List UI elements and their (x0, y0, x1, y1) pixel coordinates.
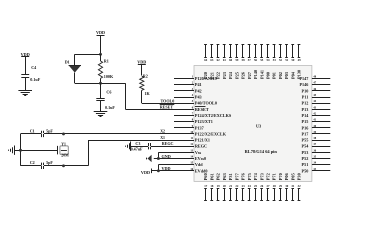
svg-text:VDD: VDD (137, 59, 146, 64)
svg-text:P54: P54 (302, 144, 310, 149)
svg-text:28: 28 (273, 184, 277, 188)
svg-text:P06: P06 (284, 172, 289, 180)
svg-text:TOOL0: TOOL0 (161, 98, 175, 103)
svg-text:20M: 20M (61, 153, 69, 157)
svg-text:U3: U3 (256, 123, 261, 128)
svg-text:GND: GND (162, 154, 171, 159)
svg-text:P11: P11 (302, 95, 309, 100)
svg-text:P51: P51 (302, 162, 309, 167)
svg-text:X1: X1 (160, 136, 165, 140)
svg-text:50: 50 (291, 58, 295, 62)
svg-text:P17: P17 (302, 131, 309, 136)
svg-text:19: 19 (217, 184, 221, 188)
svg-text:P75: P75 (247, 173, 252, 180)
svg-text:P22: P22 (216, 72, 221, 79)
svg-text:P27: P27 (247, 71, 252, 79)
svg-text:P02: P02 (278, 72, 283, 79)
svg-text:P124/XT2/EXCLKS: P124/XT2/EXCLKS (195, 113, 232, 118)
svg-text:P76: P76 (241, 172, 246, 180)
svg-text:53: 53 (273, 58, 277, 62)
svg-text:P31: P31 (228, 173, 233, 180)
svg-text:55: 55 (260, 58, 264, 62)
svg-text:EVss0: EVss0 (195, 156, 206, 161)
svg-text:5pF: 5pF (46, 128, 53, 133)
svg-text:58: 58 (242, 58, 246, 62)
svg-text:54: 54 (267, 58, 271, 62)
svg-text:31: 31 (291, 184, 295, 188)
svg-text:30: 30 (285, 184, 289, 188)
svg-text:P04: P04 (290, 71, 295, 79)
svg-text:P55: P55 (302, 138, 309, 143)
svg-text:P72: P72 (266, 173, 271, 180)
svg-text:P130: P130 (297, 70, 302, 79)
svg-text:P71: P71 (272, 173, 277, 180)
svg-text:P70: P70 (278, 173, 283, 180)
svg-text:Vss: Vss (195, 150, 202, 155)
svg-text:P13: P13 (302, 107, 309, 112)
svg-text:P14: P14 (302, 113, 310, 118)
svg-text:P40/TOOL0: P40/TOOL0 (195, 101, 217, 106)
svg-text:0.1uF: 0.1uF (105, 105, 115, 110)
svg-text:56: 56 (254, 58, 258, 62)
svg-text:P140: P140 (253, 70, 258, 79)
svg-text:32: 32 (298, 184, 302, 188)
svg-text:5pF: 5pF (46, 160, 53, 165)
svg-text:51: 51 (285, 58, 289, 62)
svg-text:P73: P73 (259, 173, 264, 180)
svg-text:1K: 1K (145, 91, 151, 96)
svg-text:0.47uF: 0.47uF (131, 146, 143, 151)
svg-text:P26: P26 (241, 71, 246, 79)
svg-text:59: 59 (235, 58, 239, 62)
svg-text:57: 57 (248, 58, 252, 62)
svg-text:P141: P141 (259, 70, 264, 79)
svg-text:25: 25 (254, 184, 258, 188)
svg-text:23: 23 (242, 184, 246, 188)
svg-text:18: 18 (210, 184, 214, 188)
svg-text:EVdd0: EVdd0 (195, 168, 208, 173)
svg-text:60: 60 (229, 58, 233, 62)
svg-text:P15: P15 (302, 119, 309, 124)
svg-text:REGC: REGC (162, 141, 174, 146)
svg-text:P20: P20 (203, 72, 208, 79)
svg-text:P63: P63 (222, 173, 227, 180)
svg-text:0.1uF: 0.1uF (30, 77, 40, 82)
svg-text:29: 29 (279, 184, 283, 188)
svg-text:P123/XT1: P123/XT1 (195, 119, 213, 124)
svg-text:C3: C3 (135, 141, 140, 146)
svg-text:X2: X2 (160, 130, 165, 134)
svg-text:P24: P24 (228, 71, 233, 79)
svg-text:P41: P41 (195, 82, 202, 87)
svg-text:P12: P12 (302, 101, 309, 106)
svg-text:C4: C4 (31, 65, 36, 70)
svg-text:100K: 100K (104, 74, 114, 79)
svg-text:P74: P74 (253, 172, 258, 180)
svg-text:P60: P60 (203, 173, 208, 180)
svg-text:20: 20 (223, 184, 227, 188)
svg-text:R1: R1 (104, 59, 109, 64)
svg-text:24: 24 (248, 184, 252, 188)
svg-text:P61: P61 (209, 173, 214, 180)
svg-text:49: 49 (298, 58, 302, 62)
svg-text:63: 63 (210, 58, 214, 62)
svg-text:P122/X2/EXCLK: P122/X2/EXCLK (195, 131, 227, 136)
svg-text:Y1: Y1 (61, 143, 66, 147)
svg-text:P52: P52 (302, 156, 309, 161)
svg-text:C1: C1 (30, 128, 35, 133)
svg-text:P10: P10 (302, 88, 309, 93)
svg-text:P146: P146 (299, 82, 308, 87)
svg-text:P00: P00 (266, 72, 271, 79)
svg-text:P50: P50 (302, 168, 309, 173)
svg-text:P62: P62 (216, 173, 221, 180)
svg-text:62: 62 (217, 58, 221, 62)
svg-text:C6: C6 (106, 90, 111, 95)
svg-text:P01: P01 (272, 72, 277, 79)
svg-text:P25: P25 (234, 72, 239, 79)
svg-text:P05: P05 (290, 173, 295, 180)
svg-text:64: 64 (204, 58, 208, 62)
svg-text:P43: P43 (195, 95, 202, 100)
svg-text:P53: P53 (302, 150, 309, 155)
svg-text:C2: C2 (30, 160, 35, 165)
svg-text:61: 61 (223, 58, 227, 62)
svg-text:P30: P30 (297, 173, 302, 180)
svg-text:P16: P16 (302, 125, 309, 130)
svg-text:P03: P03 (284, 72, 289, 79)
svg-text:26: 26 (260, 184, 264, 188)
svg-text:22: 22 (235, 184, 239, 188)
svg-text:VDD: VDD (141, 170, 150, 175)
svg-text:P121/X1: P121/X1 (195, 138, 210, 143)
svg-text:P21: P21 (209, 72, 214, 79)
svg-text:17: 17 (204, 184, 208, 188)
svg-text:RL78/G14 64 pin: RL78/G14 64 pin (245, 149, 278, 154)
svg-text:RESET: RESET (195, 107, 209, 112)
svg-text:52: 52 (279, 58, 283, 62)
svg-text:21: 21 (229, 184, 233, 188)
svg-text:P77: P77 (234, 172, 239, 180)
svg-text:VDD: VDD (162, 166, 171, 171)
svg-text:P137: P137 (195, 125, 204, 130)
svg-text:RESET: RESET (160, 104, 174, 109)
svg-text:P42: P42 (195, 88, 202, 93)
svg-text:Vdd: Vdd (195, 162, 203, 167)
svg-text:D1: D1 (65, 59, 70, 64)
svg-text:P23: P23 (222, 72, 227, 79)
svg-text:27: 27 (267, 184, 271, 188)
svg-text:R2: R2 (143, 74, 148, 79)
svg-text:REGC: REGC (195, 144, 207, 149)
svg-text:VDD: VDD (96, 30, 105, 35)
